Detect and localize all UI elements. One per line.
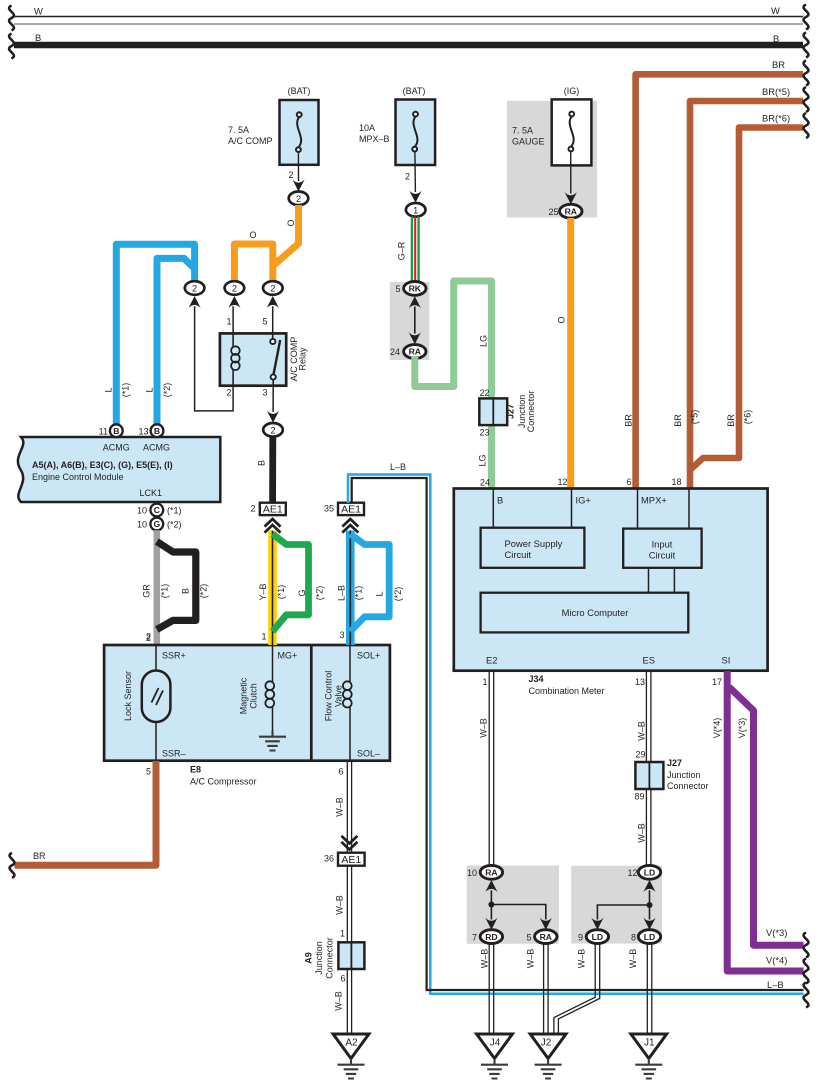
svg-text:2: 2 (232, 284, 237, 294)
svg-text:2: 2 (146, 633, 151, 643)
svg-text:(*2): (*2) (199, 584, 209, 599)
svg-text:BR(*6): BR(*6) (762, 113, 790, 124)
svg-text:1: 1 (340, 929, 345, 939)
svg-text:5: 5 (262, 317, 267, 327)
svg-text:(*2): (*2) (162, 383, 172, 398)
svg-text:Connector: Connector (667, 781, 709, 791)
svg-text:BR: BR (772, 59, 785, 70)
svg-text:BR: BR (673, 414, 683, 427)
svg-text:LG: LG (478, 454, 488, 466)
svg-text:Relay: Relay (298, 347, 308, 371)
svg-text:1: 1 (226, 317, 231, 327)
svg-text:SSR–: SSR– (162, 749, 186, 759)
svg-text:SI: SI (722, 655, 731, 666)
svg-text:G–R: G–R (397, 241, 407, 260)
svg-text:IG+: IG+ (576, 495, 592, 506)
svg-text:L–B: L–B (390, 462, 406, 472)
svg-text:Valve: Valve (334, 685, 344, 707)
svg-text:(BAT): (BAT) (403, 86, 426, 96)
svg-text:Power Supply: Power Supply (505, 538, 563, 549)
svg-text:7. 5A: 7. 5A (228, 125, 249, 135)
svg-text:A9: A9 (304, 952, 314, 964)
svg-text:8: 8 (631, 932, 636, 942)
svg-text:RD: RD (485, 932, 497, 942)
svg-text:W–B: W–B (577, 949, 587, 969)
svg-text:W–B: W–B (628, 949, 638, 969)
svg-text:10: 10 (137, 520, 147, 530)
svg-text:G: G (153, 519, 160, 529)
svg-text:V(*4): V(*4) (766, 955, 787, 966)
svg-text:L: L (104, 387, 114, 392)
svg-text:Circuit: Circuit (505, 549, 532, 560)
svg-text:(*1): (*1) (160, 584, 170, 599)
svg-text:RA: RA (540, 932, 552, 942)
svg-text:17: 17 (712, 677, 722, 687)
svg-text:J27: J27 (667, 758, 682, 768)
svg-text:W–B: W–B (335, 895, 345, 915)
svg-text:1: 1 (413, 205, 418, 215)
svg-text:89: 89 (634, 792, 644, 802)
svg-text:RA: RA (565, 206, 577, 216)
svg-text:Lock Sensor: Lock Sensor (123, 671, 133, 721)
svg-text:24: 24 (390, 347, 400, 357)
svg-text:13: 13 (635, 677, 645, 687)
svg-text:L–B: L–B (337, 585, 347, 601)
svg-text:10: 10 (137, 506, 147, 516)
svg-text:2: 2 (192, 284, 197, 294)
svg-text:SOL+: SOL+ (357, 651, 380, 661)
svg-text:W–B: W–B (334, 991, 344, 1011)
svg-text:13: 13 (138, 427, 148, 437)
svg-text:2: 2 (296, 194, 301, 204)
svg-text:O: O (557, 316, 567, 323)
svg-text:W: W (34, 6, 43, 17)
svg-text:5: 5 (526, 932, 531, 942)
svg-text:W–B: W–B (335, 797, 345, 817)
svg-text:2: 2 (226, 388, 231, 398)
svg-text:18: 18 (671, 477, 681, 487)
svg-text:3: 3 (262, 388, 267, 398)
svg-text:GAUGE: GAUGE (512, 137, 545, 147)
svg-text:LCK1: LCK1 (140, 488, 163, 498)
svg-text:J34: J34 (529, 674, 544, 684)
svg-text:RA: RA (409, 347, 421, 357)
svg-text:5: 5 (395, 284, 400, 294)
svg-text:6: 6 (626, 477, 631, 487)
svg-text:5: 5 (146, 767, 151, 777)
svg-text:22: 22 (479, 388, 489, 398)
svg-text:(*1): (*1) (276, 585, 286, 600)
svg-text:36: 36 (324, 854, 334, 864)
svg-text:W: W (771, 5, 780, 16)
svg-text:35: 35 (324, 504, 334, 514)
svg-text:Connector: Connector (526, 391, 536, 433)
svg-text:ACMG: ACMG (143, 443, 170, 453)
svg-text:Connector: Connector (325, 937, 335, 979)
svg-text:Engine Control Module: Engine Control Module (32, 472, 124, 482)
svg-text:BR: BR (726, 414, 736, 427)
svg-text:10: 10 (467, 868, 477, 878)
svg-text:J1: J1 (644, 1038, 655, 1049)
svg-text:B: B (113, 426, 119, 436)
svg-text:Magnetic: Magnetic (239, 677, 249, 714)
svg-text:LG: LG (479, 335, 489, 347)
svg-text:W–B: W–B (526, 949, 536, 969)
svg-text:2: 2 (405, 172, 410, 182)
svg-text:W–B: W–B (637, 823, 647, 843)
svg-text:B: B (773, 33, 779, 44)
svg-text:23: 23 (479, 428, 489, 438)
svg-text:V(*3): V(*3) (737, 718, 747, 739)
svg-text:25: 25 (548, 207, 558, 217)
svg-text:9: 9 (578, 932, 583, 942)
svg-text:J2: J2 (541, 1038, 552, 1049)
svg-text:12: 12 (627, 868, 637, 878)
svg-text:V(*4): V(*4) (712, 718, 722, 739)
svg-text:A/C COMP: A/C COMP (228, 136, 273, 146)
svg-text:O: O (249, 230, 256, 240)
svg-text:1: 1 (482, 677, 487, 687)
svg-text:O: O (286, 219, 296, 226)
svg-text:7. 5A: 7. 5A (512, 126, 533, 136)
svg-text:(*1): (*1) (354, 586, 364, 601)
svg-text:J4: J4 (490, 1038, 501, 1049)
svg-text:L: L (375, 591, 385, 596)
svg-text:(BAT): (BAT) (288, 86, 311, 96)
svg-text:24: 24 (480, 478, 490, 488)
svg-text:7: 7 (472, 932, 477, 942)
svg-text:Input: Input (652, 539, 673, 550)
svg-text:RK: RK (409, 284, 422, 294)
svg-text:ES: ES (643, 655, 656, 666)
svg-text:12: 12 (557, 477, 567, 487)
svg-text:BR: BR (624, 414, 634, 427)
svg-text:(*2): (*2) (167, 520, 182, 530)
svg-text:Y–B: Y–B (258, 583, 268, 600)
svg-text:Junction: Junction (314, 941, 324, 975)
svg-text:(*2): (*2) (315, 586, 325, 601)
svg-text:W–B: W–B (480, 949, 490, 969)
svg-text:J27: J27 (506, 404, 516, 419)
svg-text:W–B: W–B (637, 721, 647, 741)
svg-text:Junction: Junction (667, 770, 701, 780)
svg-text:(*1): (*1) (121, 383, 131, 398)
svg-text:V(*3): V(*3) (766, 927, 787, 938)
svg-text:L: L (145, 387, 155, 392)
svg-text:LD: LD (644, 932, 655, 942)
svg-text:MG+: MG+ (278, 651, 298, 661)
svg-text:BR: BR (33, 851, 46, 861)
svg-text:(*2): (*2) (393, 587, 403, 602)
svg-text:B: B (154, 426, 160, 436)
svg-text:Micro Computer: Micro Computer (562, 607, 629, 618)
svg-text:E8: E8 (190, 765, 201, 775)
svg-text:AE1: AE1 (341, 854, 361, 866)
svg-text:B: B (497, 495, 503, 506)
svg-text:G: G (297, 589, 307, 596)
svg-text:RA: RA (485, 868, 497, 878)
svg-text:A2: A2 (345, 1038, 358, 1049)
svg-text:ACMG: ACMG (103, 443, 130, 453)
svg-text:2: 2 (270, 284, 275, 294)
svg-text:W–B: W–B (479, 718, 489, 738)
svg-text:LD: LD (592, 932, 603, 942)
svg-text:Circuit: Circuit (649, 550, 676, 561)
svg-text:MPX+: MPX+ (641, 495, 667, 506)
svg-text:29: 29 (635, 750, 645, 760)
svg-text:B: B (181, 588, 191, 594)
svg-text:(*1): (*1) (167, 506, 182, 516)
svg-text:SSR+: SSR+ (162, 651, 186, 661)
svg-text:2: 2 (270, 425, 275, 435)
svg-text:6: 6 (338, 767, 343, 777)
svg-text:Clutch: Clutch (249, 683, 259, 709)
svg-text:(*6): (*6) (743, 410, 753, 425)
svg-text:AE1: AE1 (341, 504, 361, 516)
svg-text:1: 1 (261, 632, 266, 642)
svg-text:Flow Control: Flow Control (324, 671, 334, 722)
svg-text:A5(A), A6(B), E3(C), (G), E5(E: A5(A), A6(B), E3(C), (G), E5(E), (I) (32, 460, 173, 470)
svg-text:AE1: AE1 (263, 504, 283, 516)
svg-text:11: 11 (99, 427, 108, 437)
svg-text:LD: LD (644, 868, 655, 878)
svg-text:(*5): (*5) (690, 410, 700, 425)
svg-text:GR: GR (142, 584, 152, 598)
svg-text:SOL–: SOL– (357, 749, 380, 759)
svg-text:2: 2 (288, 170, 293, 180)
svg-text:B: B (257, 460, 267, 466)
svg-text:(IG): (IG) (564, 86, 580, 96)
svg-text:10A: 10A (359, 123, 375, 133)
svg-text:E2: E2 (486, 655, 497, 666)
svg-text:B: B (35, 32, 41, 43)
svg-text:Combination Meter: Combination Meter (529, 686, 605, 696)
svg-text:C: C (154, 505, 160, 515)
svg-text:MPX–B: MPX–B (359, 134, 390, 144)
svg-text:L–B: L–B (767, 979, 784, 990)
svg-text:A/C Compressor: A/C Compressor (190, 777, 257, 787)
svg-text:BR(*5): BR(*5) (762, 86, 790, 97)
svg-text:3: 3 (339, 630, 344, 640)
svg-text:2: 2 (250, 504, 255, 514)
svg-text:6: 6 (340, 974, 345, 984)
